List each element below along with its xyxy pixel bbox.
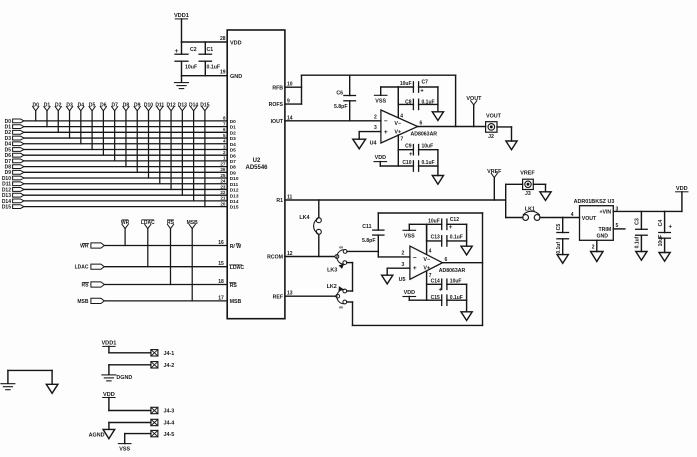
svg-text:+: + <box>384 129 388 136</box>
svg-text:25: 25 <box>220 173 226 178</box>
svg-text:IOUT: IOUT <box>271 119 284 125</box>
svg-text:2: 2 <box>402 250 405 256</box>
svg-text:U4: U4 <box>370 141 377 147</box>
svg-text:VSS: VSS <box>119 447 130 453</box>
svg-text:21: 21 <box>220 196 226 201</box>
svg-text:LDAC: LDAC <box>230 265 245 271</box>
svg-text:D12: D12 <box>166 102 175 108</box>
svg-text:0.1uF: 0.1uF <box>207 64 221 70</box>
svg-text:22: 22 <box>220 190 226 195</box>
svg-text:−: − <box>384 118 388 125</box>
svg-text:J4-2: J4-2 <box>164 363 175 369</box>
svg-text:VSS: VSS <box>404 233 415 239</box>
svg-text:D13: D13 <box>178 102 187 108</box>
svg-text:D6: D6 <box>230 153 236 159</box>
svg-text:C4: C4 <box>658 220 664 227</box>
svg-text:GND: GND <box>230 74 242 80</box>
svg-text:J4-1: J4-1 <box>164 351 175 357</box>
svg-text:TRIM: TRIM <box>599 227 612 233</box>
svg-text:J3: J3 <box>525 191 531 197</box>
svg-text:+: + <box>413 265 417 272</box>
svg-text:5.8pF: 5.8pF <box>334 104 348 110</box>
svg-text:J4-3: J4-3 <box>164 409 175 415</box>
svg-text:WR: WR <box>80 244 89 250</box>
svg-text:LK3: LK3 <box>327 267 337 273</box>
svg-text:2: 2 <box>223 150 226 155</box>
svg-text:8: 8 <box>223 116 226 121</box>
svg-text:MSB: MSB <box>230 299 242 305</box>
svg-text:10uF: 10uF <box>450 278 462 284</box>
svg-text:C7: C7 <box>422 80 429 86</box>
svg-text:D7: D7 <box>230 159 236 165</box>
svg-text:3: 3 <box>374 125 377 131</box>
svg-text:D12: D12 <box>230 188 239 194</box>
svg-text:RS: RS <box>82 283 90 289</box>
svg-text:AD8063AR: AD8063AR <box>439 268 466 274</box>
svg-text:U2: U2 <box>253 158 261 164</box>
svg-text:D14: D14 <box>230 199 239 205</box>
svg-text:4: 4 <box>223 139 226 144</box>
svg-text:19: 19 <box>220 70 226 76</box>
svg-text:LDAC: LDAC <box>141 220 155 226</box>
svg-text:RS: RS <box>230 283 238 289</box>
svg-text:R1: R1 <box>276 198 283 204</box>
svg-text:D10: D10 <box>144 102 153 108</box>
svg-text:W: W <box>236 244 241 250</box>
svg-text:GND: GND <box>597 233 609 239</box>
svg-text:+: + <box>409 152 413 158</box>
svg-text:LK2: LK2 <box>327 284 337 290</box>
svg-text:C3: C3 <box>635 218 641 225</box>
svg-text:2: 2 <box>374 114 377 120</box>
svg-text:C6: C6 <box>336 90 343 96</box>
svg-text:+: + <box>439 287 443 293</box>
svg-text:+: + <box>449 225 453 231</box>
svg-text:0.1uF: 0.1uF <box>450 295 463 301</box>
svg-text:V−: V− <box>394 121 401 127</box>
svg-text:+: + <box>175 48 179 55</box>
svg-text:3: 3 <box>223 144 226 149</box>
svg-text:24: 24 <box>220 179 226 184</box>
svg-text:7: 7 <box>401 137 404 143</box>
svg-text:AD8063AR: AD8063AR <box>411 132 438 138</box>
svg-text:VSS: VSS <box>375 98 386 104</box>
svg-text:MSB: MSB <box>77 299 89 305</box>
svg-text:∞: ∞ <box>339 305 343 311</box>
svg-text:5.8pF: 5.8pF <box>362 238 376 244</box>
svg-text:C8: C8 <box>405 100 412 106</box>
svg-text:0.1uf: 0.1uf <box>635 236 641 248</box>
svg-text:J4-4: J4-4 <box>164 421 175 427</box>
svg-text:ROFS: ROFS <box>269 102 284 108</box>
svg-text:C10: C10 <box>402 160 411 166</box>
svg-text:J2: J2 <box>488 134 494 140</box>
svg-text:V−: V− <box>423 257 430 263</box>
svg-text:ADR01BKSZ U3: ADR01BKSZ U3 <box>574 199 615 205</box>
svg-text:U5: U5 <box>399 277 406 283</box>
svg-text:LK1: LK1 <box>525 206 535 212</box>
svg-text:C11: C11 <box>362 224 371 230</box>
svg-text:D10: D10 <box>230 176 239 182</box>
svg-text:+: + <box>420 89 424 95</box>
svg-text:5: 5 <box>616 223 619 229</box>
svg-text:6: 6 <box>445 257 448 263</box>
svg-text:RCOM: RCOM <box>267 255 283 261</box>
svg-text:18: 18 <box>218 279 224 285</box>
svg-text:D11: D11 <box>230 182 239 188</box>
svg-text:4: 4 <box>429 248 432 254</box>
svg-text:VOUT: VOUT <box>466 96 482 102</box>
svg-text:LK4: LK4 <box>299 215 309 221</box>
svg-text:J4-5: J4-5 <box>164 432 175 438</box>
svg-text:D0: D0 <box>230 119 236 125</box>
svg-text:0.1uF: 0.1uF <box>450 235 463 241</box>
svg-text:RFB: RFB <box>272 85 283 91</box>
svg-text:C9: C9 <box>405 144 412 150</box>
svg-text:C2: C2 <box>190 47 197 53</box>
svg-text:VDD: VDD <box>375 155 386 161</box>
svg-text:1: 1 <box>223 156 226 161</box>
svg-text:D15: D15 <box>200 102 209 108</box>
svg-text:10uF: 10uF <box>400 81 412 87</box>
svg-text:D1: D1 <box>230 125 236 131</box>
svg-text:LDAC: LDAC <box>75 265 89 271</box>
svg-text:D15: D15 <box>230 205 239 211</box>
svg-text:D3: D3 <box>230 136 236 142</box>
svg-text:D9: D9 <box>230 170 236 176</box>
svg-text:15: 15 <box>218 261 224 267</box>
svg-text:DGND: DGND <box>116 375 132 381</box>
svg-text:10uF: 10uF <box>658 235 664 247</box>
svg-text:10uF: 10uF <box>185 64 197 70</box>
svg-text:D4: D4 <box>230 142 236 148</box>
svg-text:VREF: VREF <box>520 171 535 177</box>
svg-text:V+: V+ <box>423 266 430 272</box>
svg-text:C12: C12 <box>450 217 459 223</box>
svg-text:0.1uf: 0.1uf <box>556 242 562 254</box>
svg-text:−: − <box>413 254 417 261</box>
svg-text:27: 27 <box>220 161 226 166</box>
svg-text:C15: C15 <box>431 295 440 301</box>
svg-text:0.1uF: 0.1uF <box>422 160 435 166</box>
svg-text:R/: R/ <box>230 244 236 250</box>
svg-text:0.1uF: 0.1uF <box>422 100 435 106</box>
svg-text:AGND: AGND <box>89 433 105 439</box>
svg-text:MSB: MSB <box>187 220 199 226</box>
svg-text:+: + <box>669 225 673 231</box>
svg-text:VDD1: VDD1 <box>174 13 189 19</box>
svg-text:10uF: 10uF <box>422 144 434 150</box>
svg-text:REF: REF <box>273 294 283 300</box>
svg-text:D14: D14 <box>189 102 198 108</box>
svg-text:VOUT: VOUT <box>582 216 597 222</box>
svg-text:23: 23 <box>220 184 226 189</box>
svg-text:D13: D13 <box>230 193 239 199</box>
svg-text:D15: D15 <box>2 204 11 210</box>
svg-text:16: 16 <box>218 240 224 246</box>
svg-text:C1: C1 <box>207 47 214 53</box>
svg-text:+VIN: +VIN <box>600 210 612 216</box>
svg-text:C14: C14 <box>431 278 440 284</box>
svg-text:6: 6 <box>223 127 226 132</box>
svg-text:D5: D5 <box>230 148 236 154</box>
svg-text:10uF: 10uF <box>428 219 440 225</box>
svg-text:VDD: VDD <box>404 290 415 296</box>
svg-text:20: 20 <box>220 201 226 206</box>
svg-text:4: 4 <box>571 212 574 218</box>
svg-text:28: 28 <box>220 36 226 42</box>
svg-text:AD5546: AD5546 <box>245 165 268 171</box>
svg-text:7: 7 <box>223 121 226 126</box>
svg-text:5: 5 <box>223 133 226 138</box>
svg-text:D2: D2 <box>230 130 236 136</box>
svg-text:C5: C5 <box>556 224 562 231</box>
svg-text:VREF: VREF <box>487 169 502 175</box>
svg-text:C13: C13 <box>431 235 440 241</box>
svg-text:∞: ∞ <box>339 245 343 251</box>
svg-text:2: 2 <box>592 244 595 250</box>
svg-text:VDD: VDD <box>230 40 242 46</box>
svg-text:26: 26 <box>220 167 226 172</box>
svg-text:VOUT: VOUT <box>486 113 502 119</box>
svg-text:D8: D8 <box>230 165 236 171</box>
svg-text:17: 17 <box>218 295 224 301</box>
svg-text:3: 3 <box>402 262 405 268</box>
svg-text:4: 4 <box>400 113 403 119</box>
